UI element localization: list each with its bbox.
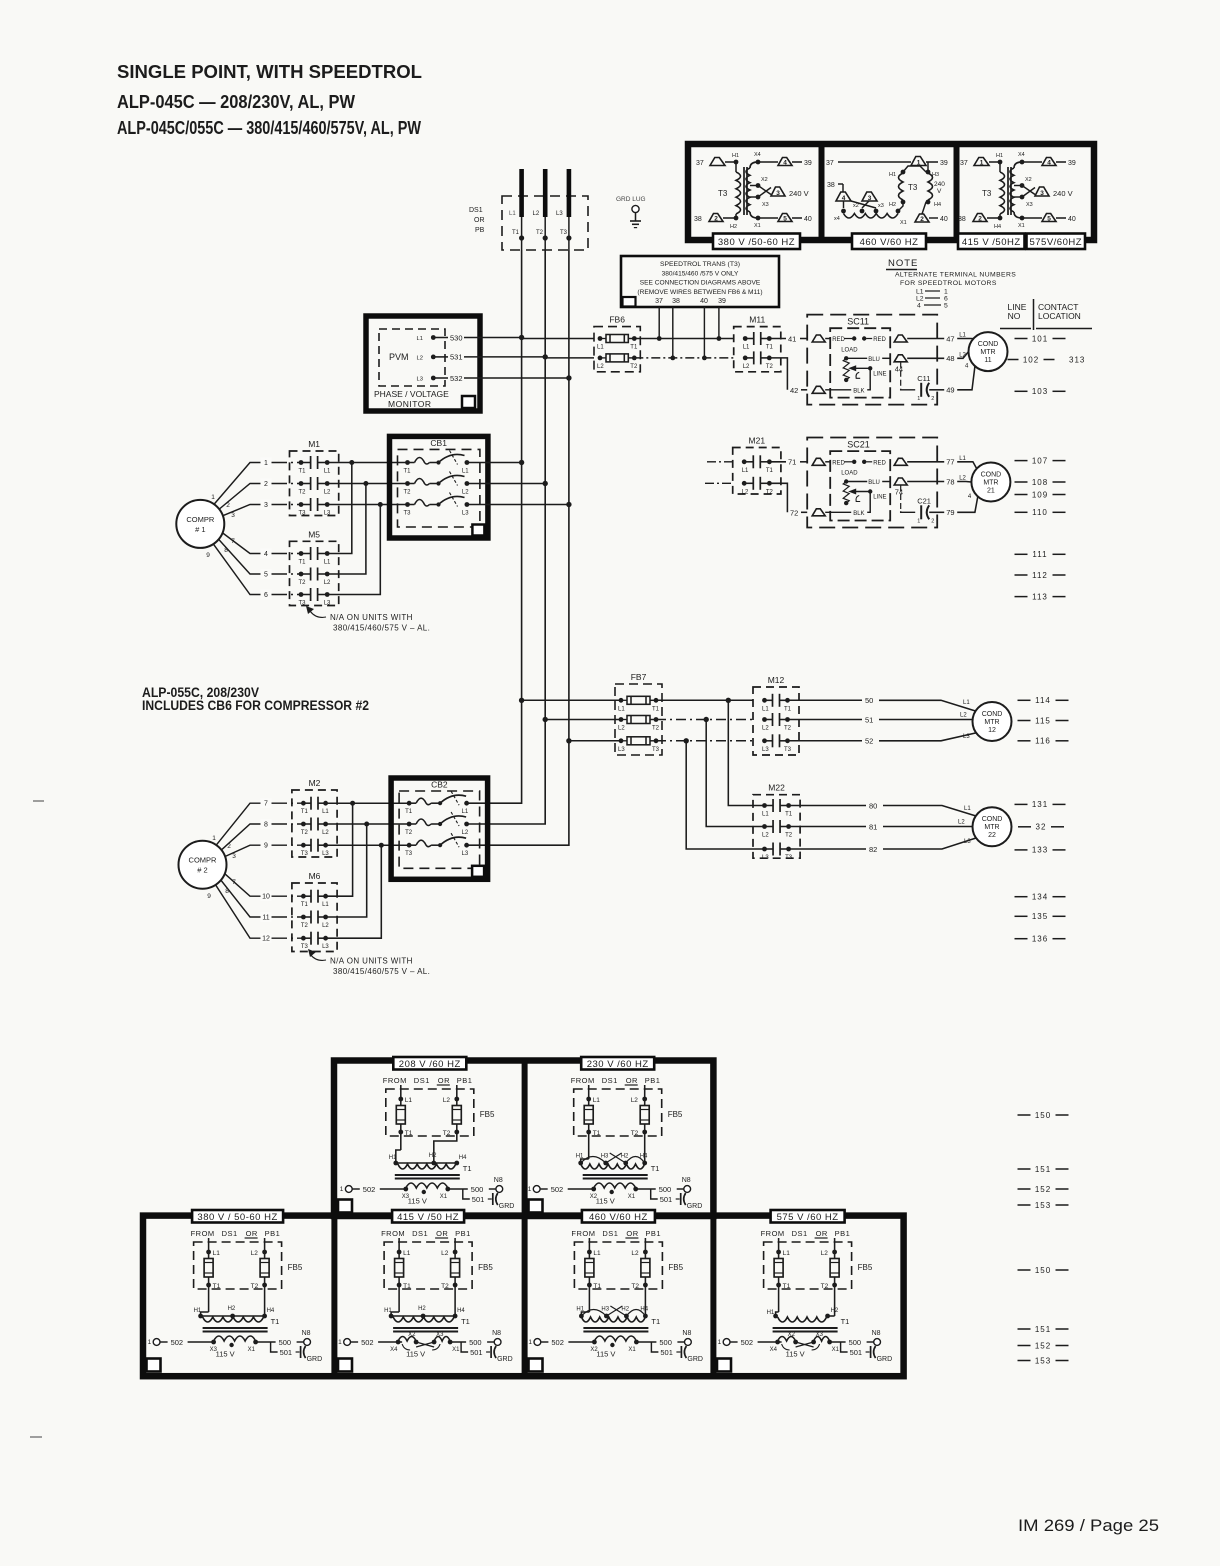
svg-text:FB5: FB5 [668, 1110, 683, 1119]
svg-text:500: 500 [469, 1338, 482, 1347]
svg-text:N8: N8 [492, 1330, 501, 1337]
svg-text:L1: L1 [963, 700, 970, 706]
svg-text:110: 110 [1032, 508, 1048, 517]
svg-text:L2: L2 [958, 820, 965, 826]
svg-text:L1: L1 [593, 1097, 601, 1104]
svg-text:9: 9 [264, 843, 268, 850]
svg-text:47: 47 [946, 334, 954, 343]
svg-text:T1: T1 [785, 812, 793, 818]
svg-text:L2: L2 [322, 830, 329, 836]
svg-text:115 V: 115 V [596, 1197, 615, 1206]
svg-text:L3: L3 [462, 511, 469, 517]
svg-text:T2: T2 [405, 830, 413, 836]
svg-text:FB7: FB7 [631, 672, 647, 682]
svg-text:115: 115 [1035, 716, 1051, 725]
svg-text:X1: X1 [628, 1347, 636, 1353]
svg-text:T1: T1 [461, 1317, 470, 1326]
svg-text:1: 1 [917, 396, 920, 402]
svg-text:LOCATION: LOCATION [1038, 311, 1081, 321]
svg-text:PB1: PB1 [835, 1229, 851, 1238]
svg-text:L2: L2 [631, 1250, 639, 1257]
svg-text:CB1: CB1 [430, 438, 447, 448]
svg-text:T1: T1 [841, 1317, 850, 1326]
svg-text:101: 101 [1032, 334, 1048, 343]
svg-text:115 V: 115 V [596, 1350, 615, 1359]
svg-text:11: 11 [984, 357, 991, 364]
svg-text:COMPR: COMPR [189, 856, 218, 865]
svg-text:MTR: MTR [980, 349, 995, 356]
svg-text:502: 502 [741, 1338, 754, 1347]
svg-text:H2: H2 [831, 1308, 839, 1314]
svg-text:T1: T1 [512, 230, 520, 236]
svg-text:FROM: FROM [381, 1229, 405, 1238]
svg-text:x4: x4 [834, 216, 840, 222]
svg-text:2: 2 [931, 396, 934, 402]
svg-text:77: 77 [946, 458, 954, 467]
svg-text:T1: T1 [593, 1130, 601, 1137]
svg-text:ALP-045C — 208/230V, AL, PW: ALP-045C — 208/230V, AL, PW [117, 91, 355, 112]
svg-text:39: 39 [1068, 160, 1076, 167]
svg-text:X2: X2 [1025, 177, 1032, 183]
svg-text:L1: L1 [959, 456, 966, 462]
svg-text:81: 81 [869, 822, 877, 831]
svg-text:L2: L2 [743, 364, 750, 370]
svg-text:SINGLE POINT, WITH SPEEDTROL: SINGLE POINT, WITH SPEEDTROL [117, 61, 422, 82]
svg-text:T3: T3 [299, 511, 307, 517]
svg-text:PB1: PB1 [455, 1229, 471, 1238]
svg-text:1: 1 [212, 835, 216, 842]
svg-text:X1: X1 [628, 1194, 636, 1200]
svg-text:L1: L1 [462, 469, 469, 475]
svg-text:114: 114 [1035, 696, 1051, 705]
svg-text:T1: T1 [271, 1317, 280, 1326]
svg-text:L1: L1 [213, 1250, 221, 1257]
svg-text:22: 22 [988, 832, 996, 839]
svg-text:M22: M22 [768, 783, 785, 793]
svg-text:136: 136 [1032, 935, 1048, 944]
svg-text:GRD LUG: GRD LUG [616, 196, 646, 203]
svg-text:RED: RED [873, 460, 886, 466]
svg-text:108: 108 [1032, 478, 1048, 487]
svg-text:PB: PB [475, 227, 485, 234]
svg-text:T3: T3 [301, 851, 309, 857]
svg-text:L2: L2 [959, 476, 966, 482]
svg-text:L2: L2 [960, 713, 967, 719]
svg-text:# 1: # 1 [195, 525, 205, 534]
svg-text:502: 502 [171, 1338, 184, 1347]
svg-text:X1: X1 [1018, 223, 1025, 229]
svg-text:112: 112 [1032, 571, 1048, 580]
svg-text:L3: L3 [762, 855, 769, 861]
svg-text:T2: T2 [301, 923, 309, 929]
svg-text:X1: X1 [248, 1347, 256, 1353]
svg-text:103: 103 [1032, 387, 1048, 396]
svg-text:37: 37 [960, 160, 968, 167]
svg-text:FB5: FB5 [668, 1263, 683, 1272]
svg-text:MTR: MTR [984, 824, 999, 831]
svg-text:X2: X2 [761, 177, 768, 183]
svg-text:M2: M2 [309, 778, 321, 788]
svg-text:78: 78 [946, 477, 954, 486]
svg-text:BLK: BLK [853, 511, 864, 517]
svg-text:IM 269 / Page 25: IM 269 / Page 25 [1018, 1517, 1159, 1535]
svg-text:460 V/60 HZ: 460 V/60 HZ [860, 237, 919, 248]
svg-text:FB5: FB5 [480, 1110, 495, 1119]
svg-text:L1: L1 [743, 345, 750, 351]
svg-text:4: 4 [264, 551, 268, 558]
svg-text:240: 240 [934, 181, 945, 188]
svg-text:115 V: 115 V [216, 1350, 235, 1359]
svg-text:72: 72 [790, 508, 798, 517]
svg-text:152: 152 [1035, 1341, 1051, 1350]
svg-text:49: 49 [946, 386, 954, 395]
svg-text:380/415/460/575 V – AL.: 380/415/460/575 V – AL. [333, 967, 430, 976]
svg-text:T3: T3 [908, 183, 918, 192]
svg-text:T3: T3 [299, 601, 307, 607]
svg-text:460 V/60 HZ: 460 V/60 HZ [589, 1212, 648, 1223]
svg-text:38: 38 [672, 298, 680, 305]
svg-text:H1: H1 [384, 1308, 392, 1314]
svg-text:T2: T2 [441, 1283, 449, 1290]
svg-text:575 V /60 HZ: 575 V /60 HZ [777, 1212, 839, 1223]
svg-text:502: 502 [551, 1338, 564, 1347]
svg-text:FROM: FROM [571, 1229, 595, 1238]
svg-text:1: 1 [917, 159, 921, 166]
svg-text:T1: T1 [405, 1130, 413, 1137]
svg-text:32: 32 [1036, 823, 1047, 832]
svg-text:ALP-045C/055C — 380/415/460/57: ALP-045C/055C — 380/415/460/575V, AL, PW [117, 117, 421, 138]
svg-text:501: 501 [850, 1348, 863, 1357]
svg-text:L2: L2 [324, 580, 331, 586]
svg-text:FOR SPEEDTROL MOTORS: FOR SPEEDTROL MOTORS [900, 280, 997, 287]
svg-text:RED: RED [873, 337, 886, 343]
svg-text:FB5: FB5 [288, 1263, 303, 1272]
svg-text:2: 2 [714, 215, 718, 222]
svg-text:INCLUDES CB6 FOR COMPRESSOR #2: INCLUDES CB6 FOR COMPRESSOR #2 [142, 698, 369, 713]
svg-text:7: 7 [264, 801, 268, 808]
svg-text:L3: L3 [618, 747, 625, 753]
svg-text:COND: COND [978, 341, 999, 348]
svg-text:L2: L2 [916, 296, 924, 303]
svg-text:500: 500 [471, 1185, 484, 1194]
svg-text:H2: H2 [418, 1306, 426, 1312]
svg-text:C11: C11 [917, 374, 930, 383]
svg-text:5: 5 [944, 303, 948, 310]
svg-text:109: 109 [1032, 490, 1048, 499]
svg-text:NOTE: NOTE [888, 258, 918, 269]
svg-text:L3: L3 [324, 601, 331, 607]
svg-text:150: 150 [1035, 1266, 1051, 1275]
svg-text:H4: H4 [459, 1155, 467, 1161]
svg-text:L2: L2 [533, 211, 540, 217]
svg-text:500: 500 [279, 1338, 292, 1347]
svg-text:T3: T3 [784, 747, 792, 753]
svg-text:T2: T2 [404, 490, 412, 496]
svg-text:T2: T2 [301, 830, 309, 836]
svg-text:115 V: 115 V [408, 1197, 427, 1206]
svg-text:M12: M12 [768, 675, 785, 685]
svg-text:L1: L1 [324, 469, 331, 475]
svg-text:501: 501 [660, 1348, 673, 1357]
svg-text:240 V: 240 V [789, 189, 809, 198]
svg-text:L1: L1 [742, 468, 749, 474]
svg-text:H2: H2 [621, 1307, 629, 1313]
svg-text:L3: L3 [963, 734, 970, 740]
svg-text:1: 1 [718, 1339, 722, 1346]
svg-text:T3: T3 [560, 230, 568, 236]
svg-text:T1: T1 [463, 1164, 472, 1173]
svg-text:H1: H1 [996, 153, 1003, 159]
svg-text:116: 116 [1035, 737, 1051, 746]
svg-text:T1: T1 [630, 345, 638, 351]
svg-text:51: 51 [865, 715, 873, 724]
svg-text:L2: L2 [443, 1097, 451, 1104]
svg-text:135: 135 [1032, 912, 1048, 921]
svg-text:1: 1 [528, 1186, 532, 1193]
svg-text:12: 12 [988, 727, 996, 734]
svg-text:L3: L3 [324, 511, 331, 517]
svg-text:115 V: 115 V [406, 1350, 425, 1359]
svg-text:(REMOVE WIRES BETWEEN FB6 &: (REMOVE WIRES BETWEEN FB6 & M11) [637, 289, 762, 296]
svg-text:GRD: GRD [877, 1356, 893, 1363]
svg-text:H2: H2 [228, 1306, 236, 1312]
svg-text:N8: N8 [682, 1177, 691, 1184]
svg-text:N8: N8 [302, 1330, 311, 1337]
svg-text:37: 37 [655, 298, 663, 305]
svg-text:N/A ON UNITS WITH: N/A ON UNITS WITH [330, 613, 413, 622]
svg-text:L3: L3 [462, 851, 469, 857]
svg-text:T1: T1 [404, 469, 412, 475]
svg-text:L1: L1 [324, 560, 331, 566]
svg-text:H2: H2 [889, 202, 896, 208]
svg-text:41: 41 [788, 334, 796, 343]
svg-text:5: 5 [264, 572, 268, 579]
svg-text:2: 2 [920, 216, 924, 223]
svg-text:L3: L3 [556, 211, 563, 217]
svg-text:T2: T2 [299, 580, 307, 586]
svg-text:3: 3 [264, 502, 268, 509]
svg-text:153: 153 [1035, 1201, 1051, 1210]
svg-text:T3: T3 [982, 189, 992, 198]
svg-text:L1: L1 [618, 706, 625, 712]
svg-text:T2: T2 [631, 1283, 639, 1290]
svg-text:M6: M6 [309, 871, 321, 881]
svg-text:L1: L1 [509, 211, 516, 217]
svg-text:T1: T1 [213, 1283, 221, 1290]
svg-text:L1: L1 [322, 809, 329, 815]
svg-text:L1: L1 [405, 1097, 413, 1104]
svg-text:T3: T3 [652, 747, 660, 753]
svg-text:T3: T3 [405, 851, 413, 857]
svg-text:8: 8 [264, 822, 268, 829]
svg-text:380/415/460 /575 V ONLY: 380/415/460 /575 V ONLY [662, 271, 739, 278]
svg-text:MTR: MTR [983, 479, 998, 486]
svg-text:38: 38 [958, 216, 966, 223]
svg-text:1: 1 [980, 159, 984, 166]
svg-text:H2: H2 [429, 1153, 437, 1159]
svg-text:39: 39 [718, 298, 726, 305]
svg-text:230 V /60 HZ: 230 V /60 HZ [587, 1059, 649, 1070]
svg-text:3: 3 [1040, 190, 1044, 197]
svg-text:501: 501 [470, 1348, 483, 1357]
svg-text:T2: T2 [785, 833, 793, 839]
svg-text:102: 102 [1023, 355, 1039, 364]
svg-text:8: 8 [224, 547, 228, 554]
svg-text:T1: T1 [652, 706, 660, 712]
svg-text:L2: L2 [618, 726, 625, 732]
svg-text:L2: L2 [742, 489, 749, 495]
svg-text:500: 500 [659, 1185, 672, 1194]
svg-text:PB1: PB1 [645, 1076, 661, 1085]
svg-text:H2: H2 [621, 1154, 629, 1160]
svg-text:107: 107 [1032, 456, 1048, 465]
svg-text:H2: H2 [730, 224, 737, 230]
svg-text:80: 80 [869, 801, 877, 810]
svg-text:OR: OR [474, 217, 485, 224]
svg-text:37: 37 [696, 160, 704, 167]
svg-text:GRD: GRD [499, 1203, 515, 1210]
svg-text:MONITOR: MONITOR [388, 399, 431, 409]
svg-text:4: 4 [842, 195, 846, 202]
svg-text:50: 50 [865, 696, 873, 705]
svg-text:37: 37 [826, 160, 834, 167]
svg-text:M1: M1 [308, 439, 320, 449]
svg-text:X4: X4 [1018, 152, 1025, 158]
svg-text:40: 40 [940, 216, 948, 223]
svg-text:1: 1 [338, 1339, 342, 1346]
svg-text:T2: T2 [443, 1130, 451, 1137]
svg-text:PB1: PB1 [645, 1229, 661, 1238]
svg-text:530: 530 [450, 333, 463, 342]
svg-text:M5: M5 [308, 529, 320, 539]
svg-text:T1: T1 [299, 560, 307, 566]
svg-text:OR: OR [626, 1229, 638, 1238]
svg-text:42: 42 [790, 386, 798, 395]
svg-text:T3: T3 [301, 944, 309, 950]
svg-text:9: 9 [206, 552, 210, 559]
svg-text:115 V: 115 V [786, 1350, 805, 1359]
svg-text:52: 52 [865, 737, 873, 746]
svg-text:133: 133 [1032, 846, 1048, 855]
svg-text:GRD: GRD [497, 1356, 513, 1363]
svg-text:39: 39 [940, 160, 948, 167]
svg-text:T3: T3 [785, 855, 793, 861]
svg-text:x3: x3 [878, 203, 884, 209]
svg-text:313: 313 [1069, 355, 1085, 364]
svg-text:L2: L2 [251, 1250, 259, 1257]
svg-text:2: 2 [227, 843, 231, 850]
svg-text:44: 44 [895, 364, 903, 373]
svg-text:38: 38 [694, 216, 702, 223]
svg-text:ALTERNATE TERMINAL NUMBERS: ALTERNATE TERMINAL NUMBERS [895, 272, 1016, 279]
svg-text:153: 153 [1035, 1356, 1051, 1365]
svg-text:T2: T2 [652, 726, 660, 732]
svg-text:T1: T1 [405, 809, 413, 815]
svg-text:GRD: GRD [307, 1356, 323, 1363]
svg-text:FROM: FROM [571, 1076, 595, 1085]
svg-text:DS1: DS1 [602, 1076, 618, 1085]
svg-text:502: 502 [361, 1338, 374, 1347]
svg-text:H4: H4 [994, 224, 1001, 230]
svg-text:532: 532 [450, 374, 463, 383]
svg-text:H1: H1 [576, 1307, 584, 1313]
svg-text:COMPR: COMPR [186, 515, 215, 524]
svg-text:501: 501 [280, 1348, 293, 1357]
svg-text:T1: T1 [783, 1283, 791, 1290]
svg-text:380 V /50-60 HZ: 380 V /50-60 HZ [718, 237, 795, 248]
svg-text:DS1: DS1 [469, 207, 483, 214]
svg-text:T1: T1 [403, 1283, 411, 1290]
svg-text:OR: OR [438, 1076, 450, 1085]
svg-text:2: 2 [226, 502, 230, 509]
svg-text:T1: T1 [651, 1164, 660, 1173]
svg-text:T2: T2 [536, 230, 544, 236]
svg-text:1: 1 [528, 1339, 532, 1346]
svg-text:L1: L1 [462, 809, 469, 815]
svg-text:1: 1 [917, 518, 920, 524]
svg-text:575V/60HZ: 575V/60HZ [1029, 237, 1082, 248]
svg-text:X4: X4 [390, 1347, 398, 1353]
svg-text:8: 8 [225, 888, 229, 895]
svg-text:DS1: DS1 [414, 1076, 430, 1085]
svg-text:GRD: GRD [687, 1356, 703, 1363]
svg-text:2: 2 [931, 518, 934, 524]
svg-text:BLK: BLK [853, 388, 864, 394]
svg-text:74: 74 [895, 488, 903, 497]
svg-text:X3: X3 [1026, 202, 1033, 208]
svg-text:N8: N8 [682, 1330, 691, 1337]
svg-text:X1: X1 [440, 1194, 448, 1200]
svg-text:M21: M21 [749, 436, 766, 446]
svg-text:FB6: FB6 [609, 315, 625, 325]
svg-text:H1: H1 [389, 1155, 397, 1161]
svg-text:L2: L2 [462, 830, 469, 836]
svg-text:L1: L1 [959, 333, 966, 339]
svg-text:X3: X3 [762, 202, 769, 208]
svg-text:T2: T2 [766, 489, 774, 495]
svg-text:H4: H4 [934, 202, 941, 208]
svg-text:1: 1 [148, 1339, 152, 1346]
svg-text:T3: T3 [404, 511, 412, 517]
svg-text:L1: L1 [403, 1250, 411, 1257]
svg-text:X1: X1 [832, 1347, 840, 1353]
svg-text:2: 2 [264, 481, 268, 488]
svg-text:N/A ON UNITS WITH: N/A ON UNITS WITH [330, 957, 413, 966]
svg-text:PB1: PB1 [265, 1229, 281, 1238]
svg-text:3: 3 [776, 190, 780, 197]
svg-text:H1: H1 [732, 153, 739, 159]
svg-text:T1: T1 [299, 469, 307, 475]
svg-text:415 V /50 HZ: 415 V /50 HZ [397, 1212, 459, 1223]
svg-text:DS1: DS1 [792, 1229, 808, 1238]
svg-text:x2: x2 [853, 203, 859, 209]
svg-text:LINE: LINE [873, 371, 886, 377]
svg-text:5: 5 [1047, 215, 1051, 222]
svg-text:1: 1 [264, 460, 268, 467]
svg-text:4: 4 [917, 303, 921, 310]
svg-text:FROM: FROM [761, 1229, 785, 1238]
svg-text:SC21: SC21 [847, 440, 870, 450]
svg-text:500: 500 [849, 1338, 862, 1347]
svg-text:501: 501 [472, 1195, 485, 1204]
svg-text:FB5: FB5 [478, 1263, 493, 1272]
svg-text:OR: OR [246, 1229, 258, 1238]
svg-text:LOAD: LOAD [841, 471, 858, 477]
svg-text:82: 82 [869, 845, 877, 854]
svg-text:PHASE / VOLTAGE: PHASE / VOLTAGE [374, 389, 449, 399]
svg-text:LINE: LINE [873, 495, 886, 501]
svg-text:T2: T2 [821, 1283, 829, 1290]
